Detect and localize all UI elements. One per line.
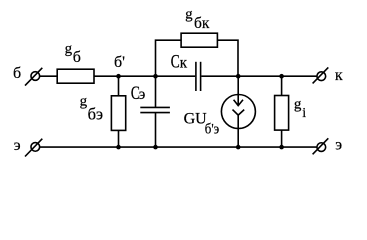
svg-text:б'э: б'э: [205, 122, 219, 138]
node dot g_be bottom: [116, 145, 121, 150]
wire: g_be to bottom rail: [118, 130, 120, 147]
current source GU circle: [221, 95, 255, 129]
node dot source bottom: [236, 145, 241, 150]
terminal e left (emitter) circle with slash: [25, 139, 42, 157]
terminal k (collector) circle with slash: [313, 67, 329, 83]
svg-text:бк: бк: [194, 15, 210, 32]
wire: g_i to bottom rail: [281, 130, 283, 147]
svg-text:i: i: [302, 106, 306, 121]
svg-text:g: g: [65, 41, 73, 57]
node dot g_i top: [279, 74, 284, 79]
terminal e right (emitter) circle with slash: [313, 138, 329, 154]
node dot b': [116, 74, 121, 79]
capacitor Ck plates: [195, 62, 197, 91]
capacitor Ce plates: [140, 106, 170, 108]
svg-text:бэ: бэ: [88, 105, 103, 124]
svg-text:g: g: [80, 94, 88, 110]
terminal b (base) circle with slash: [25, 68, 42, 86]
svg-text:g: g: [185, 6, 193, 22]
node dot collector top: [236, 74, 241, 79]
svg-text:э: э: [139, 86, 146, 103]
wire: bypass left leg up and top left segment: [156, 40, 182, 76]
node dot Ce top: [153, 74, 158, 79]
wire: b terminal to resistor g_b: [40, 75, 58, 77]
svg-text:б': б': [114, 54, 125, 71]
wire: Ck right plate to k terminal: [201, 75, 317, 77]
resistor R g_i: [275, 96, 289, 131]
wire: g_b to Ck left plate (through nodes b' and Ce tap): [94, 75, 195, 77]
svg-text:C: C: [171, 53, 180, 73]
wire: Ce top lead: [155, 76, 157, 107]
wire: node down to current source: [237, 76, 239, 94]
svg-text:э: э: [335, 137, 342, 154]
svg-text:GU: GU: [184, 111, 208, 128]
wire: Ce bottom lead: [155, 113, 157, 148]
svg-text:g: g: [294, 97, 302, 113]
wire: b' node down to g_be: [118, 76, 120, 96]
wire: bypass top right segment and right leg down: [217, 40, 238, 76]
svg-text:б: б: [73, 49, 81, 66]
svg-text:к: к: [335, 67, 343, 84]
current source arrow stem and chevrons: [237, 95, 239, 106]
resistor R g_b: [57, 69, 94, 83]
resistor R g_be: [111, 96, 125, 131]
svg-text:к: к: [180, 55, 188, 72]
node dot g_i bottom: [279, 145, 284, 150]
node dot Ce bottom: [153, 145, 158, 150]
wire: bottom emitter rail: [40, 146, 317, 148]
resistor R g_bk: [181, 33, 217, 47]
svg-text:б: б: [13, 65, 21, 82]
svg-text:э: э: [14, 137, 21, 154]
wire: top rail to g_i: [281, 76, 283, 95]
